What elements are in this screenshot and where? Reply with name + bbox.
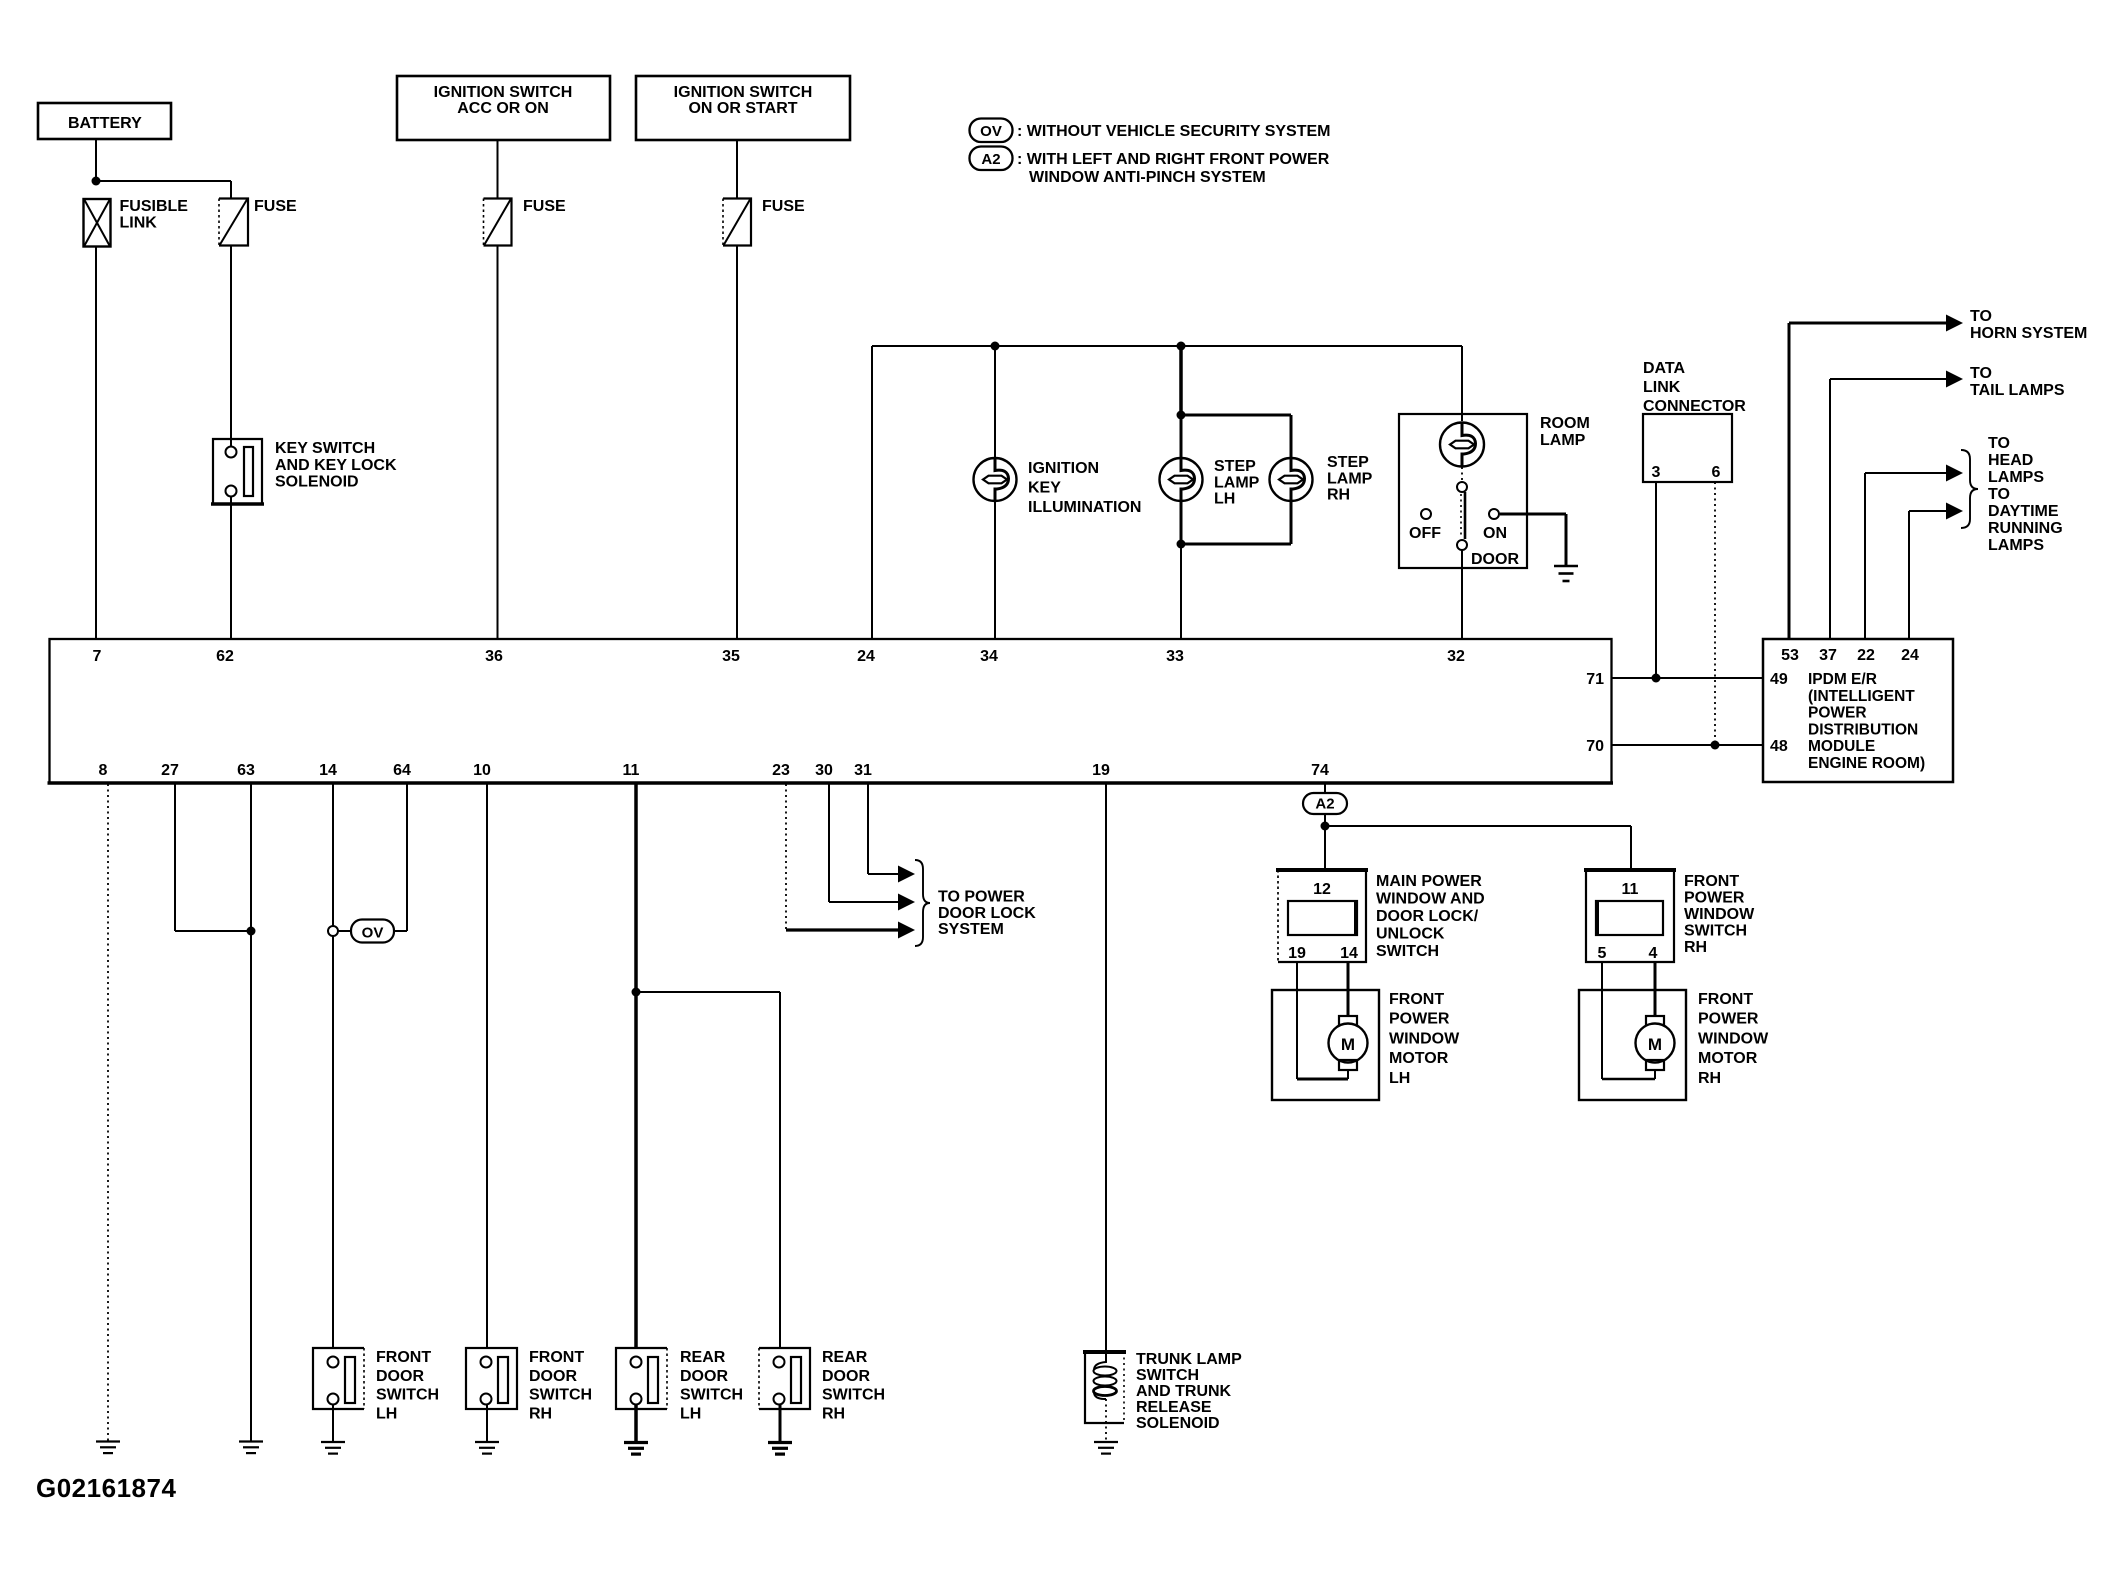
svg-text:A2: A2: [1315, 796, 1334, 813]
svg-text:POWER: POWER: [1698, 1011, 1759, 1028]
svg-text:ROOM: ROOM: [1540, 415, 1590, 432]
junction node pin11 branch: [632, 988, 641, 997]
label main power window switch: [1376, 873, 1485, 960]
svg-text:19: 19: [1288, 945, 1306, 962]
svg-text:LAMP: LAMP: [1540, 432, 1586, 449]
svg-text:FRONT: FRONT: [1698, 991, 1753, 1008]
label IPDM text: [1808, 671, 1925, 772]
svg-text:48: 48: [1770, 738, 1788, 755]
label ON: [1483, 525, 1507, 542]
wire pin63 to ground: [250, 784, 252, 1441]
label fuse F3: [762, 198, 805, 215]
wire pin23 (dotted): [785, 784, 787, 929]
junction node bus/step lamps: [1177, 342, 1186, 351]
RH window switch pin 11 label: [1622, 881, 1639, 898]
wire pin70 BCM to IPDM pin48: [1611, 744, 1762, 746]
svg-text:RH: RH: [1698, 1070, 1721, 1087]
svg-text:ENGINE ROOM): ENGINE ROOM): [1808, 755, 1925, 772]
svg-text:AND TRUNK: AND TRUNK: [1136, 1383, 1232, 1400]
svg-text:TO: TO: [1988, 486, 2010, 503]
svg-text:SWITCH: SWITCH: [376, 1387, 439, 1404]
svg-text:WINDOW ANTI-PINCH SYSTEM: WINDOW ANTI-PINCH SYSTEM: [1029, 169, 1266, 186]
step lamp LH bulb L2: [1160, 458, 1203, 501]
label room lamp: [1540, 415, 1590, 449]
wire step lamp loop right: [1290, 415, 1293, 544]
svg-text:MODULE: MODULE: [1808, 738, 1875, 755]
svg-text:37: 37: [1819, 647, 1837, 664]
arrow to horn system: [1946, 315, 1963, 332]
svg-text:DOOR: DOOR: [376, 1368, 424, 1385]
svg-text:: WITHOUT VEHICLE SECURITY SYS: : WITHOUT VEHICLE SECURITY SYSTEM: [1017, 123, 1331, 140]
svg-text:POWER: POWER: [1684, 890, 1745, 907]
wire IPDM pin53 to horn (bold): [1789, 323, 1948, 639]
wire pin23 to arrow (bold): [786, 929, 900, 930]
label to horn system: [1970, 308, 2087, 342]
BCM right pin label 71: [1586, 671, 1604, 688]
svg-text:DISTRIBUTION: DISTRIBUTION: [1808, 721, 1918, 738]
svg-text:SWITCH: SWITCH: [822, 1387, 885, 1404]
svg-text:24: 24: [1901, 647, 1919, 664]
room lamp ON contact: [1489, 509, 1499, 519]
svg-text:SWITCH: SWITCH: [1376, 943, 1439, 960]
svg-text:14: 14: [1340, 945, 1358, 962]
svg-text:RUNNING: RUNNING: [1988, 520, 2063, 537]
wire pin71 BCM to IPDM pin49: [1611, 677, 1762, 679]
ignition switch ACC-or-ON box: [397, 76, 610, 140]
svg-text:11: 11: [1622, 881, 1639, 898]
ground G4 (front door switch RH): [475, 1442, 499, 1454]
wire pin64 riser: [406, 784, 408, 931]
svg-text:LH: LH: [1389, 1070, 1410, 1087]
label ignition key illumination: [1028, 460, 1141, 516]
wire ign key illumination drop: [994, 346, 996, 459]
fusible link FL: [84, 199, 111, 247]
svg-text:FUSE: FUSE: [523, 198, 566, 215]
wire pin30 to arrow: [829, 784, 900, 902]
wire branch to rear door switch RH: [636, 992, 780, 1348]
wire switch pin14 to motor LH (bold): [1347, 962, 1350, 1016]
DLC pin label 6: [1712, 464, 1721, 481]
wire OV contact to front door switch LH: [332, 936, 334, 1348]
label front power window switch RH: [1684, 873, 1755, 956]
room lamp box: [1399, 414, 1527, 568]
wire ign2 to fuse F3: [736, 140, 738, 199]
svg-text:24: 24: [857, 648, 875, 665]
legend OV text: [1017, 123, 1331, 140]
svg-text:IGNITION SWITCH: IGNITION SWITCH: [674, 84, 813, 101]
svg-text:LAMPS: LAMPS: [1988, 537, 2044, 554]
svg-text:M: M: [1341, 1035, 1355, 1054]
figure number G02161874: [36, 1473, 176, 1503]
main window switch pin 19 label: [1288, 945, 1306, 962]
svg-text:5: 5: [1598, 945, 1607, 962]
wire fuse F1 to key switch: [230, 246, 232, 440]
wire step lamp feed (bold): [1179, 346, 1183, 415]
wire trunk coil to ground (dotted): [1105, 1399, 1107, 1441]
wire lamp bus horizontal: [872, 345, 1462, 347]
svg-text:DATA: DATA: [1643, 360, 1686, 377]
svg-text:53: 53: [1781, 647, 1799, 664]
junction node DLC6/70: [1711, 741, 1720, 750]
wire A2 to main window switch: [1324, 826, 1326, 870]
fuse F3 (IGN): [723, 199, 751, 246]
svg-text:DOOR: DOOR: [1471, 551, 1519, 568]
wire motor LH bottom (bold): [1297, 1078, 1348, 1081]
wire pin11 (bold): [634, 784, 638, 992]
wire pin27: [175, 784, 251, 931]
rear door switch LH: [616, 1348, 667, 1409]
svg-text:WINDOW: WINDOW: [1389, 1030, 1460, 1047]
svg-text:12: 12: [1313, 881, 1331, 898]
label to tail lamps: [1970, 365, 2065, 399]
room lamp bulb L4: [1440, 423, 1484, 467]
battery B1 box: [38, 103, 171, 139]
wire pin8 to ground (dotted): [107, 784, 109, 1441]
wire front door switch RH to ground: [486, 1404, 488, 1441]
fuse F1 (battery): [219, 199, 248, 246]
svg-text:RELEASE: RELEASE: [1136, 1399, 1212, 1416]
svg-text:LINK: LINK: [120, 215, 158, 232]
wire pin10 to front door switch RH: [486, 784, 488, 1348]
wire switch pin19 to motor loop: [1296, 962, 1298, 1079]
label fusible link: [120, 198, 189, 232]
room lamp switch top contact: [1457, 482, 1467, 492]
BCM top pin labels 7 62 36 35 24 34 33 32: [93, 648, 1465, 665]
OV option oval: [338, 920, 407, 943]
wire A2 oval to junction: [1324, 814, 1326, 826]
wire front door switch LH to ground: [332, 1404, 334, 1441]
svg-text:SOLENOID: SOLENOID: [275, 474, 359, 491]
svg-text:23: 23: [772, 762, 790, 779]
svg-text:LAMPS: LAMPS: [1988, 469, 2044, 486]
svg-text:27: 27: [161, 762, 179, 779]
svg-text:31: 31: [854, 762, 872, 779]
junction node step loop top: [1177, 411, 1186, 420]
svg-text:AND KEY LOCK: AND KEY LOCK: [275, 457, 397, 474]
svg-text:LH: LH: [1214, 491, 1235, 508]
svg-text:REAR: REAR: [822, 1349, 868, 1366]
IPDM pin label 49: [1770, 671, 1788, 688]
trunk lamp switch and release solenoid box: [1083, 1352, 1126, 1423]
svg-text:DAYTIME: DAYTIME: [1988, 503, 2059, 520]
key switch and key lock solenoid S1: [211, 439, 264, 504]
svg-text:64: 64: [393, 762, 411, 779]
wire pin7 (fusible link to BCM): [95, 247, 97, 640]
room lamp switch blade: [1461, 492, 1465, 539]
arrow to head lamps: [1946, 465, 1963, 482]
svg-text:IGNITION SWITCH: IGNITION SWITCH: [434, 84, 573, 101]
room lamp ground: [1554, 566, 1578, 581]
IPDM E/R box: [1763, 639, 1953, 782]
arrow to daytime running lamps: [1946, 503, 1963, 520]
svg-text:MAIN POWER: MAIN POWER: [1376, 873, 1482, 890]
main window switch pin 14 label: [1340, 945, 1358, 962]
wire bus to room lamp: [1461, 346, 1463, 421]
svg-text:FUSE: FUSE: [762, 198, 805, 215]
svg-text:11: 11: [623, 762, 640, 779]
svg-text:SWITCH: SWITCH: [529, 1387, 592, 1404]
legend A2 pill: [970, 147, 1013, 171]
label rear door switch RH: [822, 1349, 885, 1422]
front door switch LH: [313, 1348, 364, 1409]
rear door switch RH: [759, 1348, 810, 1409]
wire pin24 riser: [871, 346, 873, 639]
svg-text:63: 63: [237, 762, 255, 779]
wire pin36 (fuse F2 to BCM): [497, 246, 499, 640]
A2 option oval: [1303, 793, 1347, 814]
IPDM top pin labels 53 37 22 24: [1781, 647, 1919, 664]
label front door switch RH: [529, 1349, 592, 1422]
svg-text:MOTOR: MOTOR: [1389, 1050, 1449, 1067]
svg-text:WINDOW: WINDOW: [1698, 1030, 1769, 1047]
main power window and door lock/unlock switch box: [1276, 870, 1368, 963]
main window switch pin 12 label: [1313, 881, 1331, 898]
svg-text:IGNITION: IGNITION: [1028, 460, 1099, 477]
svg-text:74: 74: [1311, 762, 1329, 779]
svg-text:DOOR: DOOR: [529, 1368, 577, 1385]
wire pin19 to trunk switch: [1105, 784, 1107, 1352]
label fuse F1: [254, 198, 297, 215]
wire pin62 (key switch to BCM): [230, 504, 232, 639]
wire rear door switch LH to ground (bold): [634, 1404, 638, 1442]
label step lamp RH: [1327, 454, 1373, 504]
svg-text:CONNECTOR: CONNECTOR: [1643, 398, 1746, 415]
svg-text:RH: RH: [1684, 939, 1707, 956]
svg-text:6: 6: [1712, 464, 1721, 481]
svg-text:HORN SYSTEM: HORN SYSTEM: [1970, 325, 2087, 342]
front power window motor LH M1: [1329, 1016, 1368, 1079]
wire DLC pin6 down (dotted): [1714, 482, 1716, 745]
wire ON contact to ground: [1500, 514, 1566, 566]
wire room lamp bulb to contact (dotted): [1461, 467, 1463, 481]
BCM body control module box: [48, 639, 1614, 783]
svg-text:(INTELLIGENT: (INTELLIGENT: [1808, 688, 1915, 705]
junction node step loop bottom: [1177, 540, 1186, 549]
wire pin35 (fuse F3 to BCM): [736, 246, 738, 640]
svg-text:7: 7: [93, 648, 102, 665]
svg-text:WINDOW: WINDOW: [1684, 906, 1755, 923]
label trunk lamp switch: [1136, 1351, 1242, 1432]
svg-text:ILLUMINATION: ILLUMINATION: [1028, 499, 1141, 516]
svg-text:FUSIBLE: FUSIBLE: [120, 198, 189, 215]
ground G7 (trunk): [1094, 1442, 1118, 1454]
svg-text:62: 62: [216, 648, 234, 665]
data link connector box: [1643, 414, 1732, 482]
label rear door switch LH: [680, 1349, 743, 1422]
front power window motor RH box: [1579, 990, 1686, 1100]
wire switch pin5 to motor loop: [1601, 962, 1603, 1079]
IPDM pin label 48: [1770, 738, 1788, 755]
trunk release solenoid coil: [1094, 1352, 1117, 1399]
svg-text:FRONT: FRONT: [529, 1349, 584, 1366]
wire ign1 to fuse F2: [497, 140, 499, 199]
front door switch RH: [466, 1348, 517, 1409]
ground G3 (front door switch LH): [321, 1442, 345, 1454]
arrow pin31 to power door lock: [898, 866, 915, 883]
junction node battery/fuse feed: [92, 177, 101, 186]
label to power door lock system: [938, 889, 1036, 939]
svg-text:DOOR LOCK: DOOR LOCK: [938, 905, 1036, 922]
wire switch pin4 to motor RH (bold): [1654, 962, 1657, 1016]
svg-text:KEY: KEY: [1028, 480, 1061, 497]
wire pin32 (room lamp to BCM): [1461, 550, 1463, 639]
wire pin34 (bulb to BCM): [994, 500, 996, 639]
wire pin74 to A2 oval: [1324, 784, 1326, 794]
BCM bottom pin labels 8 27 63 14 64 10 11 23 30 31 19 74: [99, 762, 1329, 779]
label key switch: [275, 440, 397, 491]
svg-text:ACC OR ON: ACC OR ON: [457, 100, 549, 117]
svg-text:LH: LH: [680, 1405, 701, 1422]
brace power door lock: [915, 860, 930, 946]
RH window switch pin 4 label: [1649, 945, 1658, 962]
svg-text:22: 22: [1857, 647, 1875, 664]
label step lamp LH: [1214, 458, 1260, 508]
arrow pin23 to power door lock: [898, 922, 915, 939]
wire IPDM pin24 to DRL: [1909, 511, 1948, 639]
ground G5 (rear door switch LH): [624, 1443, 648, 1455]
wire battery to junction: [95, 139, 97, 181]
svg-text:36: 36: [485, 648, 503, 665]
RH window switch inner rect: [1596, 901, 1663, 935]
label OFF: [1409, 525, 1441, 542]
svg-text:HEAD: HEAD: [1988, 452, 2033, 469]
brace head/DRL destinations: [1961, 450, 1978, 528]
svg-text:TAIL LAMPS: TAIL LAMPS: [1970, 382, 2065, 399]
svg-text:BATTERY: BATTERY: [68, 115, 142, 132]
front power window motor RH M2: [1636, 1016, 1675, 1079]
svg-text:49: 49: [1770, 671, 1788, 688]
svg-text:: WITH LEFT AND RIGHT FRONT PO: : WITH LEFT AND RIGHT FRONT POWER: [1017, 151, 1330, 168]
wire DLC pin3 down: [1655, 482, 1657, 678]
svg-text:TO: TO: [1988, 435, 2010, 452]
main window switch inner rect: [1288, 901, 1357, 935]
svg-text:UNLOCK: UNLOCK: [1376, 926, 1445, 943]
svg-text:IPDM E/R: IPDM E/R: [1808, 671, 1877, 688]
svg-text:SYSTEM: SYSTEM: [938, 921, 1004, 938]
label to head lamps / daytime running lamps: [1988, 435, 2063, 554]
svg-text:TO: TO: [1970, 308, 1992, 325]
svg-text:RH: RH: [1327, 487, 1350, 504]
svg-text:LINK: LINK: [1643, 379, 1681, 396]
label data link connector: [1643, 360, 1746, 415]
svg-text:A2: A2: [981, 151, 1000, 168]
svg-text:RH: RH: [529, 1405, 552, 1422]
wire A2 to RH window switch: [1325, 826, 1631, 870]
svg-text:4: 4: [1649, 945, 1658, 962]
svg-text:19: 19: [1092, 762, 1110, 779]
svg-text:FUSE: FUSE: [254, 198, 297, 215]
wire pin31 to arrow: [868, 784, 900, 874]
arrow to tail lamps: [1946, 371, 1963, 388]
svg-text:35: 35: [722, 648, 740, 665]
legend OV pill: [970, 119, 1013, 143]
front power window motor LH box: [1272, 990, 1379, 1100]
wire pin33 (step lamps to BCM): [1180, 544, 1182, 639]
svg-text:34: 34: [980, 648, 998, 665]
DLC pin label 3: [1652, 464, 1661, 481]
svg-text:MOTOR: MOTOR: [1698, 1050, 1758, 1067]
label front door switch LH: [376, 1349, 439, 1422]
svg-text:DOOR: DOOR: [822, 1368, 870, 1385]
svg-text:10: 10: [473, 762, 491, 779]
svg-text:KEY SWITCH: KEY SWITCH: [275, 440, 375, 457]
wire pin11 to rear door switch LH (bold): [634, 992, 638, 1348]
wire pin14 to OV contact: [332, 784, 334, 926]
svg-text:FRONT: FRONT: [1684, 873, 1739, 890]
svg-text:30: 30: [815, 762, 833, 779]
junction node A2 branch: [1321, 822, 1330, 831]
svg-text:32: 32: [1447, 648, 1465, 665]
svg-text:ON OR START: ON OR START: [688, 100, 797, 117]
svg-text:8: 8: [99, 762, 108, 779]
svg-text:FRONT: FRONT: [376, 1349, 431, 1366]
step lamp RH bulb L3: [1270, 458, 1313, 501]
wire step lamp loop top: [1181, 414, 1291, 417]
junction node 27/63: [247, 927, 256, 936]
RH window switch pin 5 label: [1598, 945, 1607, 962]
svg-text:RH: RH: [822, 1405, 845, 1422]
svg-text:70: 70: [1586, 738, 1604, 755]
svg-text:WINDOW AND: WINDOW AND: [1376, 891, 1485, 908]
svg-text:TO: TO: [1970, 365, 1992, 382]
svg-text:OV: OV: [362, 925, 384, 942]
front power window switch RH box: [1584, 870, 1676, 962]
ground G1 (pin 8): [96, 1442, 120, 1454]
svg-text:ON: ON: [1483, 525, 1507, 542]
svg-text:LH: LH: [376, 1405, 397, 1422]
fuse F2 (ACC): [484, 199, 512, 246]
wire motor RH bottom: [1602, 1078, 1655, 1081]
label fuse F2: [523, 198, 566, 215]
room lamp OFF contact: [1421, 509, 1431, 519]
svg-text:71: 71: [1586, 671, 1604, 688]
label front power window motor RH: [1698, 991, 1769, 1087]
svg-text:LAMP: LAMP: [1327, 470, 1373, 487]
ignition key illumination bulb L1: [974, 458, 1017, 501]
svg-text:SOLENOID: SOLENOID: [1136, 1415, 1220, 1432]
arrow pin30 to power door lock: [898, 894, 915, 911]
svg-text:TO POWER: TO POWER: [938, 889, 1025, 906]
svg-text:OFF: OFF: [1409, 525, 1441, 542]
wire step lamp loop left: [1180, 415, 1183, 544]
svg-text:STEP: STEP: [1214, 458, 1256, 475]
svg-text:14: 14: [319, 762, 337, 779]
svg-text:SWITCH: SWITCH: [1684, 923, 1747, 940]
label front power window motor LH: [1389, 991, 1460, 1087]
svg-text:G02161874: G02161874: [36, 1473, 176, 1503]
legend A2 text: [1017, 151, 1330, 186]
ground G2 (pin 63): [239, 1442, 263, 1454]
svg-text:LAMP: LAMP: [1214, 474, 1260, 491]
wire IPDM pin37 to tail lamps: [1830, 379, 1948, 639]
svg-text:DOOR LOCK/: DOOR LOCK/: [1376, 908, 1479, 925]
svg-text:REAR: REAR: [680, 1349, 726, 1366]
svg-text:POWER: POWER: [1389, 1011, 1450, 1028]
BCM right pin label 70: [1586, 738, 1604, 755]
ground G6 (rear door switch RH): [768, 1443, 792, 1455]
svg-text:3: 3: [1652, 464, 1661, 481]
svg-text:DOOR: DOOR: [680, 1368, 728, 1385]
svg-text:POWER: POWER: [1808, 705, 1867, 722]
svg-text:M: M: [1648, 1035, 1662, 1054]
wire junction to fuse 62 drop: [96, 181, 231, 199]
svg-text:STEP: STEP: [1327, 454, 1369, 471]
svg-text:SWITCH: SWITCH: [1136, 1367, 1199, 1384]
svg-text:33: 33: [1166, 648, 1184, 665]
ignition switch ON-or-START box: [636, 76, 850, 140]
junction node bus/ign-key-illum: [991, 342, 1000, 351]
svg-text:OV: OV: [980, 123, 1002, 140]
